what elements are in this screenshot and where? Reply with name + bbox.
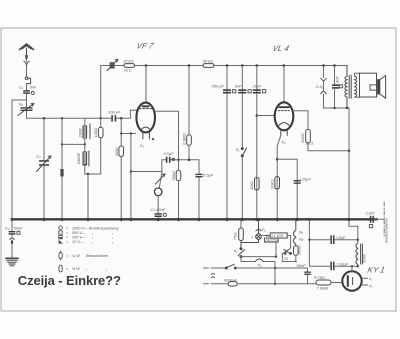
wire [295,255,297,261]
capacitor C6 0.5uF plates [196,174,203,178]
svg-text:B,: B, [266,233,270,238]
capacitor C3 plates [166,157,171,163]
node [61,143,63,145]
svg-text:20kΩ: 20kΩ [269,180,274,191]
spark gap [24,61,29,66]
wire box leads [263,236,291,249]
node [100,117,102,119]
wire pot chain [159,160,165,189]
bypass line 1 [226,66,228,220]
coil ground drop [87,174,89,220]
bypass line 2 [241,66,243,220]
bus end capacitor C11 [370,216,374,223]
wire VF7 screen [155,111,179,160]
node [333,64,336,67]
capacitor DL plates [332,84,339,88]
output vertical L7L8 [323,66,325,109]
svg-text:75Ω: 75Ω [233,233,238,241]
wire to KY1 [331,282,342,284]
svg-text:L1 40Ω: L1 40Ω [272,234,284,238]
coil core line [89,124,91,139]
svg-text:160Ω: 160Ω [297,245,302,255]
tube VF7 envelope [136,103,155,133]
svg-text:L: L [252,234,254,239]
top bus wire [115,65,347,67]
node [322,64,325,67]
wire S2 row [241,256,276,258]
wire tuning branch [43,118,45,219]
svg-text:5nF: 5nF [235,84,242,89]
capacitor 100pF plates [111,115,116,121]
choke winding [356,243,358,266]
dc line upper [309,239,357,241]
svg-text:R 75Ω: R 75Ω [314,275,325,280]
loop link [10,238,14,240]
wire [308,143,349,151]
legend [59,226,120,272]
capacitor C7 200pF plates [223,89,231,93]
mains line 2 [237,283,316,285]
tube VL4 cathode arc [279,123,289,126]
capacitor DL square [340,85,343,88]
coil L1 winding [83,118,87,144]
svg-text:12 V—: 12 V— [72,240,84,244]
svg-text:K₂: K₂ [282,140,287,145]
legend symbol circle [59,226,63,230]
node [188,159,191,162]
tube VL4 plate [279,106,289,108]
wire lamp line [241,257,275,262]
resistor R7 1M body [255,178,260,191]
svg-text:n₁: n₁ [369,277,372,281]
node [84,143,86,145]
capacitor C9 square [263,90,266,93]
capacitor Kg variable plates [21,107,33,111]
coil L2 winding [83,144,101,174]
svg-text:VL 4: VL 4 [272,44,291,53]
bus nodes [10,218,350,221]
svg-text:≈ 8μF: ≈ 8μF [336,235,346,240]
legend symbol square [59,231,62,234]
rating box [265,238,279,242]
wire cathode drop line [130,134,132,220]
node [275,256,277,258]
tube VF7 plate [143,105,149,107]
legend symbol square half [59,235,62,238]
svg-text:+15μF: +15μF [300,177,312,182]
wire detector link [131,171,162,173]
node [255,114,258,117]
jumper chevrons L7-L8 [321,78,326,93]
svg-text:2MΩ: 2MΩ [114,147,119,157]
capacitor DL line [334,66,336,109]
wire VL4 cathode drop [277,135,281,219]
speaker cone [378,76,386,99]
wire [157,217,159,220]
svg-text:T₂: T₂ [262,227,266,232]
fuse 600mA body [228,282,237,286]
svg-text:C3 μF: C3 μF [164,151,175,156]
capacitor C4 50nF plates [9,231,16,235]
wire B+ drop [348,108,350,226]
mains switch S4 [225,264,236,269]
tube KY1 pins right [362,278,368,285]
legend symbol half watt [59,265,62,272]
resistor R5 body [187,135,192,146]
mains stub 2 [204,283,229,285]
wire [26,94,28,107]
wire S3 out [282,253,296,261]
svg-text:7 Watt: 7 Watt [317,286,329,291]
capacitor C8 5nF plates [238,89,246,93]
svg-text:50 kΩ: 50 kΩ [203,59,214,64]
node [87,173,89,175]
pilot lamp L [241,220,261,243]
capacitor C3 symbol square [172,158,175,161]
capacitor C7 square [233,90,236,93]
tube KY1 envelope [342,271,361,290]
wire [188,145,190,160]
svg-text:(0,1): (0,1) [125,69,132,73]
resistor R2 20k body [124,64,135,68]
tube VF7 shield tap [121,133,135,135]
transformer core [349,75,351,98]
ground [6,258,18,265]
resistor R1 body [98,127,103,138]
node [61,117,63,119]
svg-text:½ W: ½ W [72,267,80,271]
node [276,158,279,161]
wire left branch to ground bus [12,100,27,220]
svg-text:Kₑ: Kₑ [19,102,24,107]
wire [178,160,180,220]
ground return vertical [308,220,310,267]
wire antenna down [26,59,28,62]
capacitor C8 square [248,90,251,93]
svg-text:VF 7: VF 7 [136,42,155,51]
wire cathode bypass [277,159,297,219]
node [226,64,229,67]
choke top jog [349,226,358,243]
node [308,239,310,241]
wiper arrow [155,174,165,184]
resistor R11 160 body [294,246,299,256]
capacitor C5 10nF plates [155,213,162,217]
tube VL4 envelope [275,102,294,130]
svg-text:50kΩ: 50kΩ [171,171,176,181]
wire secondary to speaker [355,73,360,97]
resistor R4 2M body [119,146,124,157]
node [120,117,123,120]
wire [100,138,102,174]
heater ripple R1R2 [294,220,296,246]
resistor R6 50k body [176,170,181,181]
wire [100,118,102,127]
node [255,64,258,67]
mains stub 1 [204,267,226,269]
capacitor Kg arrow [18,104,34,116]
svg-text:ℓ₇-ℓ₈: ℓ₇-ℓ₈ [315,84,323,89]
legend symbol triangle [59,240,63,244]
node [351,265,353,267]
svg-text:200 pF: 200 pF [211,84,225,89]
legend symbol quarter watt [59,251,62,261]
node [120,132,122,134]
choke core [361,244,363,264]
dial lamp bump P2 [255,259,263,261]
svg-text:Austauschbarkeit: Austauschbarkeit [385,218,389,244]
wire VF7 anode [145,66,147,103]
fuse link loop [25,77,30,84]
tube VF7 grid dashes [139,108,152,110]
svg-text:≈ 16μF: ≈ 16μF [337,262,349,267]
svg-text:50nF: 50nF [14,226,24,231]
wire grid leak drop [120,118,122,146]
antenna A1 [20,44,34,55]
node [346,107,348,109]
resistor R12 75ohm body [316,280,331,285]
svg-text:200Ƶ: 200Ƶ [78,128,83,139]
svg-text:C 3nF: C 3nF [366,212,376,216]
wire box drop [275,242,277,257]
wire VL4 grid [257,115,275,117]
svg-text:C₂: C₂ [36,154,41,159]
svg-text:100 pF: 100 pF [108,110,121,115]
capacitor C5 symbol circle [163,213,166,216]
tube VF7 heater pins [143,132,150,139]
node [333,107,335,109]
ground bus [12,218,377,220]
transformer primary [345,66,347,109]
svg-text:0,3MΩ: 0,3MΩ [181,133,186,145]
resistor R8 20k body [275,177,280,190]
capacitor C2 tuning plates [39,160,49,166]
svg-text:C₁: C₁ [19,85,24,90]
node [283,64,286,67]
output bottom wire [324,107,350,109]
node [241,64,244,67]
switch S2 [238,241,245,258]
svg-text:20nF: 20nF [252,84,263,89]
tube KY1 anode bar [347,276,349,286]
svg-text:5000: 5000 [362,253,367,263]
wire coil tap [62,143,85,145]
svg-text:P₂: P₂ [258,263,263,268]
speaker frame [360,73,377,97]
wire bypass 0.5uF [198,160,200,220]
node [274,283,276,285]
svg-text:1000 V— Anodenspannung: 1000 V— Anodenspannung [72,226,119,230]
tube VF7 cathode arc [140,127,151,130]
svg-text:Belastbarkeit: Belastbarkeit [86,254,109,258]
svg-text:N₁: N₁ [299,230,304,235]
wire lamp drop [274,262,276,284]
coil core line 2 [88,151,90,166]
potentiometer P1 [154,188,162,196]
bead [11,241,13,244]
svg-text:500 V—: 500 V— [72,231,86,235]
capacitor C1 5nF plates [23,90,30,94]
tube KY1 cathode [352,278,354,285]
trimmer capacitor T1 [107,59,118,70]
wire VL4 screen right [293,111,308,130]
capacitor 8uF bars [330,235,334,244]
capacitor 16uF bars [330,262,334,271]
marker triangle [151,137,154,140]
svg-text:S₂: S₂ [234,248,239,253]
svg-text:KY 1: KY 1 [367,266,386,275]
tube VL4 heater pins [281,129,287,135]
mains line 1 [235,267,307,269]
svg-text:200Ω: 200Ω [300,133,305,144]
capacitor C1 test symbol circle [31,91,34,94]
svg-text:N₂: N₂ [299,237,304,242]
core trim slug [60,169,63,177]
svg-text:¼ W: ¼ W [72,254,80,258]
resistor R5 0.3M from bus [188,66,190,135]
svg-text:20 kΩ: 20 kΩ [122,59,134,64]
wire [26,66,28,77]
dc line lower [309,265,357,267]
svg-text:Czeija - Einkre??: Czeija - Einkre?? [18,273,121,288]
node [130,132,132,134]
wire [27,111,111,118]
switch S1 [241,148,246,157]
wire C4 to ground [11,220,13,259]
svg-text:3nF: 3nF [335,76,340,83]
resistor R10 75 body [240,220,242,229]
svg-text:1MΩ: 1MΩ [249,181,254,190]
wire [157,196,159,213]
tube VL4 grid dashes [278,110,289,112]
node [130,170,132,172]
wire VL4 anode [283,66,285,103]
node [145,64,148,67]
ac tildes [212,274,215,278]
capacitor C2 arrow [37,156,51,172]
speaker magnet [370,85,377,90]
node [177,159,180,162]
svg-text:4400Ƶ: 4400Ƶ [76,153,81,165]
svg-text:C₄: C₄ [5,226,10,231]
dash-dot boundary [383,202,385,238]
node [357,239,359,241]
svg-text:600mA: 600mA [224,277,237,282]
node [188,64,191,67]
transformer secondary [355,76,357,97]
wire coil return [61,118,63,219]
resistor R3 50k body [203,64,214,68]
node [348,150,351,153]
svg-text:50nF: 50nF [297,263,307,268]
wire KY1 top [351,266,353,271]
antenna lead bead [25,55,27,59]
capacitor C4 symbol square [17,231,20,234]
grid line VL4 [256,66,258,220]
wire trimmer jog [101,66,110,119]
wire grid to VF7 [116,110,136,118]
wire screen node [170,159,199,161]
node [357,265,359,267]
barretter box B1 [270,233,287,238]
node [274,267,276,269]
wire bus end stub [375,218,385,220]
capacitor C11 square [369,225,372,228]
svg-text:S₃: S₃ [284,256,289,261]
svg-text:0,5μF: 0,5μF [203,173,214,178]
mains capacitor 50nF [307,268,309,284]
switch S3 [283,249,291,254]
hook T2 [256,230,261,231]
svg-text:C ≈ 10nF: C ≈ 10nF [151,207,166,212]
resistor R9 200 body [306,130,311,144]
svg-text:2A(220V): 2A(220V) [265,238,279,242]
node [43,117,46,120]
svg-text:250 V—: 250 V— [71,236,86,240]
svg-text:5nF: 5nF [30,84,37,89]
wire [26,84,28,90]
svg-text:100Ω: 100Ω [93,128,98,138]
capacitor C9 20nF plates [253,89,261,93]
wire [120,157,122,220]
svg-text:12,5: 12,5 [306,141,315,146]
capacitor C10 15uF plates [294,180,301,184]
